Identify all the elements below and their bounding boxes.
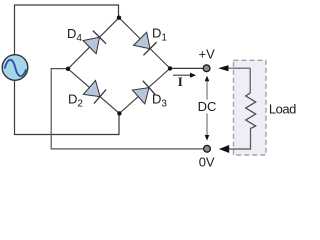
svg-text:DC: DC [198,99,217,114]
svg-text:Load: Load [269,102,296,117]
svg-text:I: I [178,74,183,89]
svg-text:0V: 0V [199,155,215,170]
svg-text:+V: +V [199,47,216,62]
